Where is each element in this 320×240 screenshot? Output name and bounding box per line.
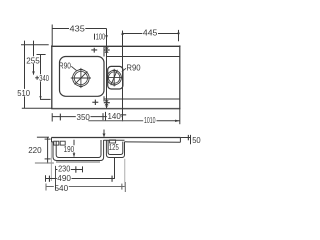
dim 540 line — [46, 186, 54, 188]
main bowl — [60, 57, 105, 97]
tick 230 right — [82, 166, 84, 172]
arrow 1010 right — [175, 120, 180, 122]
ext line faint left — [50, 142, 52, 181]
tick 220 lower — [45, 158, 51, 159]
dim 445 left tick — [122, 31, 124, 42]
dim 445 line — [123, 33, 143, 35]
arrow divider elevation — [103, 134, 106, 138]
dim 510 line — [24, 41, 26, 89]
dim 50 line — [181, 137, 191, 139]
rim box 1 — [54, 141, 59, 145]
dim 255 line — [33, 41, 35, 57]
dim 220 bottom tick — [35, 162, 54, 164]
mid underside — [104, 139, 125, 141]
dim 340 top tick — [37, 54, 46, 56]
dim 1010 line — [88, 120, 143, 122]
dim 220 line — [47, 137, 49, 163]
mark hourglass bottom rim — [105, 100, 109, 105]
half tub inner — [108, 140, 123, 154]
plus tick 540 right — [121, 184, 122, 190]
svg-text:190: 190 — [64, 144, 75, 154]
tick 140 left — [105, 112, 107, 121]
svg-text:540: 540 — [55, 183, 69, 193]
tick 350 right — [102, 113, 104, 120]
arrow 435 down on extension — [105, 35, 108, 39]
svg-text:490: 490 — [57, 173, 71, 183]
svg-text:125: 125 — [109, 142, 119, 152]
svg-text:255: 255 — [26, 55, 40, 65]
tick 350 left — [51, 113, 53, 121]
tick 540 left — [45, 184, 47, 191]
plus mark at 340 label — [37, 76, 38, 80]
elevation left edge — [52, 138, 54, 142]
dim 230 line — [56, 169, 58, 171]
arrow 445 right — [177, 30, 180, 34]
tick 50 — [190, 135, 192, 144]
arrow 340 bottom — [39, 96, 42, 99]
mark plus bottom rim — [92, 102, 98, 103]
arrow 255 bottom — [32, 71, 35, 75]
sink outer rectangle top edge — [51, 45, 180, 47]
mark plus top rim — [91, 49, 97, 50]
sink outer rectangle bottom edge — [51, 108, 180, 110]
drainboard underside — [125, 141, 181, 144]
half bowl — [108, 66, 123, 89]
dim 490 line — [46, 178, 57, 180]
dim 1010 right extension — [179, 108, 181, 124]
divider line B / 435 extension — [106, 29, 108, 109]
svg-text:140: 140 — [108, 111, 121, 121]
mark hourglass top rim — [105, 47, 109, 52]
rim box 2 — [60, 141, 65, 145]
dim 445 right tick — [178, 30, 180, 41]
plus tick 50 — [188, 135, 189, 140]
svg-text:220: 220 — [28, 145, 42, 155]
dim 435 line — [52, 28, 69, 30]
divider line A upper — [103, 46, 105, 56]
main tub outer — [53, 140, 104, 161]
dim 100 tick — [94, 34, 96, 40]
svg-text:R90: R90 — [59, 61, 72, 70]
half bowl drain circle — [107, 70, 121, 84]
drainboard ledge line — [104, 98, 180, 100]
dim 340 line — [40, 55, 42, 75]
sink outer rectangle left edge — [51, 45, 53, 109]
plus bar 140 right — [121, 114, 127, 115]
svg-text:435: 435 — [70, 24, 85, 34]
dim 435 left extension — [51, 25, 53, 46]
divider arrow line — [103, 130, 105, 137]
arrow 190 bottom — [73, 153, 76, 156]
tick 340 bottom — [40, 99, 51, 100]
plus tick 490 left — [49, 176, 50, 182]
svg-text:R90: R90 — [126, 64, 141, 73]
arrow to bottom edge — [105, 106, 108, 109]
svg-text:510: 510 — [17, 88, 30, 98]
main tub bottom shadow — [56, 161, 100, 163]
ext 490 right — [114, 158, 116, 179]
tick 140 right — [122, 114, 124, 121]
plus tick 230 — [75, 166, 76, 172]
tick 220 upper — [45, 139, 51, 140]
R90 leader 2 — [122, 68, 126, 71]
main tub inner — [56, 140, 101, 158]
dim 220 top tick — [37, 136, 49, 138]
svg-text:50: 50 — [192, 135, 201, 145]
svg-text:340: 340 — [39, 73, 49, 83]
divider line A lower — [103, 96, 105, 101]
R90 leader 1 — [71, 66, 76, 70]
svg-text:1010: 1010 — [144, 116, 156, 125]
ext line 230 left — [55, 166, 57, 190]
main bowl drain circle — [73, 70, 90, 87]
plus tick 490 right — [112, 176, 113, 182]
tick 540 right — [124, 182, 126, 192]
arrow 445 left — [121, 31, 124, 35]
plus tick 350 left — [60, 114, 61, 121]
half tub outer — [106, 140, 124, 157]
overflow box — [110, 140, 116, 143]
dim 350/140 line — [52, 116, 76, 118]
left extension line top — [21, 44, 49, 46]
vertical extension through half bowl right edge — [122, 31, 124, 120]
rim inner top line — [107, 56, 180, 58]
dim 190 line — [73, 140, 75, 146]
sink outer rectangle right edge — [179, 45, 181, 109]
elevation right edge — [179, 138, 181, 143]
svg-text:445: 445 — [143, 28, 158, 38]
svg-text:230: 230 — [58, 163, 70, 173]
svg-text:350: 350 — [77, 112, 91, 122]
svg-text:100: 100 — [96, 33, 106, 42]
tick 490 left — [45, 175, 47, 182]
ext 540 right grey — [124, 159, 126, 187]
elevation top surface — [51, 137, 180, 139]
left extension line bottom — [22, 107, 52, 109]
